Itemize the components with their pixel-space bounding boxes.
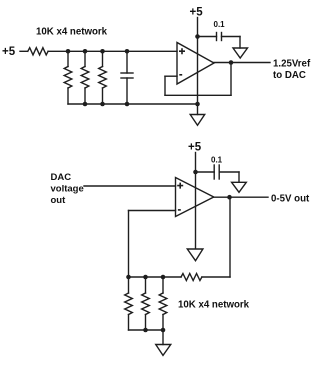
svg-text:0-5V out: 0-5V out	[271, 194, 310, 205]
svg-text:0.1: 0.1	[214, 20, 226, 29]
wire U1 output	[214, 62, 270, 64]
svg-text:+5: +5	[2, 46, 16, 58]
op-amp U1	[177, 43, 214, 85]
node H (junction dot supply/bypass)	[195, 34, 200, 39]
capacitor C2 (0.1 bypass)	[198, 33, 241, 41]
svg-text:10K x4 network: 10K x4 network	[36, 27, 108, 38]
svg-text:DAC: DAC	[51, 172, 72, 183]
wire U2 inverting input to gain network	[129, 211, 176, 278]
capacitor C1 (filter cap across network)	[121, 51, 133, 104]
node M (junction dot rail left)	[126, 275, 131, 280]
node L (U2 output junction dot)	[227, 195, 232, 200]
node N (junction dot rail mid)	[143, 275, 148, 280]
node C (junction dot R3 top)	[100, 49, 105, 54]
label: 10K x4 network (bottom)	[178, 299, 250, 310]
resistor R7 (shunt, 10K network)	[142, 277, 150, 330]
wire U1 feedback loop (output to inverting input)	[165, 63, 231, 96]
wire C2 to ground	[239, 37, 241, 49]
wire U2 supply (+5 down through op-amp to ground)	[195, 153, 197, 249]
node G (junction dot C1 bottom)	[125, 102, 130, 107]
label 0.1 (C2 value)	[214, 20, 226, 29]
wire rail to ground symbol	[197, 104, 199, 115]
resistor R1 (series, part of 10K x4 network)	[28, 48, 48, 55]
ground (gain network ground)	[156, 345, 171, 356]
node O (junction dot rail right)	[161, 275, 166, 280]
node J (ground rail junction dot below U1)	[195, 102, 200, 107]
node +5 (top-left input)	[2, 46, 16, 58]
resistor R8 (shunt, 10K network)	[159, 277, 167, 330]
svg-text:+5: +5	[188, 142, 202, 154]
label: 1.25Vref to DAC (output)	[273, 59, 311, 81]
wire from +5 to resistor R1	[20, 50, 28, 52]
node P (junction dot bottom rail mid)	[143, 328, 148, 333]
svg-text:to DAC: to DAC	[273, 70, 306, 81]
op-amp U2	[176, 178, 214, 217]
wire U2 output	[214, 196, 268, 198]
node Q (junction dot bottom rail right)	[161, 328, 166, 333]
node +5 (U2 supply label)	[188, 142, 202, 154]
resistor R5 (feedback, part of 10K x4 network)	[181, 274, 202, 281]
resistor R3 (shunt, 10K network)	[81, 51, 89, 104]
node D (junction dot C1 top)	[125, 49, 130, 54]
wire bottom rail (top circuit ground rail)	[68, 103, 198, 105]
node E (junction dot R3 bottom)	[83, 102, 88, 107]
wire gain network bottom rail	[129, 329, 164, 331]
capacitor C3 (0.1 bypass)	[196, 165, 240, 179]
svg-text:out: out	[51, 195, 67, 206]
svg-text:+5: +5	[190, 7, 204, 19]
wire U1 supply (+5 down through op-amp to ground rail)	[197, 18, 199, 105]
resistor R2 (shunt, 10K network)	[64, 51, 72, 104]
node B (junction dot R2 top)	[83, 49, 88, 54]
svg-text:voltage: voltage	[51, 184, 84, 195]
svg-text:10K x4 network: 10K x4 network	[178, 299, 250, 310]
ground (C2 bypass ground)	[233, 48, 248, 58]
wire gain network top rail	[129, 276, 182, 278]
wire bottom rail to ground	[162, 330, 164, 345]
label: 0-5V out (output)	[271, 194, 310, 205]
wire DAC input to U2 + input	[84, 185, 176, 187]
label: DAC voltage out (input)	[51, 172, 84, 206]
label 0.1 (C3 value)	[211, 156, 223, 165]
node I (output junction dot)	[229, 60, 234, 65]
node K (junction dot supply/bypass U2)	[193, 170, 198, 175]
ground (top circuit main ground)	[190, 115, 205, 126]
wire R5 to U2 output	[202, 197, 230, 277]
svg-text:0.1: 0.1	[211, 156, 223, 165]
node F (junction dot R4 bottom)	[100, 102, 105, 107]
resistor R4 (shunt, 10K network)	[99, 51, 107, 104]
wire top rail to op-amp + input	[48, 50, 177, 52]
svg-text:1.25Vref: 1.25Vref	[273, 59, 311, 70]
node +5 (U1 supply label)	[190, 7, 204, 19]
ground (U2 negative supply ground)	[187, 249, 203, 261]
wire C3 to ground	[238, 172, 240, 182]
label: 10K x4 network (top)	[36, 27, 108, 38]
node A (junction dot R1 top)	[66, 49, 71, 54]
ground (C3 bypass ground)	[232, 182, 247, 192]
resistor R6 (shunt, 10K network)	[125, 277, 133, 330]
